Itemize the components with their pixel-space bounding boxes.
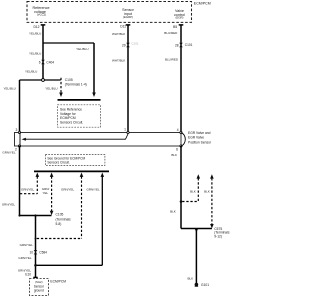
svg-text:EGR Valve: EGR Valve <box>188 136 204 140</box>
svg-text:B5: B5 <box>173 25 177 29</box>
EGR valve and position sensor box <box>15 133 182 147</box>
svg-text:C101: C101 <box>185 43 193 47</box>
svg-text:GRN/YEL: GRN/YEL <box>2 151 16 155</box>
ECM/PCM dashed box (top) <box>27 2 192 23</box>
svg-text:GRN/YEL: GRN/YEL <box>20 243 34 247</box>
svg-text:(EGR): (EGR) <box>176 16 184 20</box>
svg-text:C105: C105 <box>65 78 73 82</box>
svg-text:YEL/BLU: YEL/BLU <box>29 31 41 35</box>
wire YEL/BLU vertical from pin D12 <box>42 25 44 80</box>
node junction line C575 terminals 9-12 <box>181 228 212 230</box>
svg-text:G101: G101 <box>201 283 209 287</box>
svg-text:BLK: BLK <box>170 209 176 213</box>
svg-text:BLU/RED: BLU/RED <box>165 57 179 61</box>
svg-text:C404: C404 <box>46 60 54 64</box>
svg-text:GRN/YEL: GRN/YEL <box>2 202 16 206</box>
svg-text:(EGRP): (EGRP) <box>123 15 133 19</box>
svg-text:YEL/BLU: YEL/BLU <box>25 69 37 73</box>
inline connector 28 C101 on right wire <box>175 43 193 48</box>
ground G101 <box>195 283 199 287</box>
pin label: Reference voltage (VCC2) <box>32 6 49 17</box>
svg-text:E10: E10 <box>25 273 31 277</box>
label GRN/ YEL (two lines) <box>42 187 50 195</box>
potentiometer wiper arrow inside box <box>20 133 128 147</box>
svg-text:C584: C584 <box>39 251 47 255</box>
svg-text:GRN/YEL: GRN/YEL <box>87 188 101 192</box>
svg-text:(Terminals: (Terminals <box>56 217 72 221</box>
ECM/PCM sensor ground dashed box <box>29 279 48 296</box>
svg-text:BLK: BLK <box>188 276 194 280</box>
wire BLK to G101 <box>195 229 197 283</box>
pin terminal at sensor ground <box>33 276 37 278</box>
svg-text:Sensors Circuit.: Sensors Circuit. <box>60 121 83 125</box>
svg-text:5-8): 5-8) <box>56 222 62 226</box>
wire solid branch down x=94 with arrow <box>92 43 96 97</box>
node ground bus line <box>34 170 109 172</box>
svg-text:Position Sensor: Position Sensor <box>188 140 212 144</box>
inline connector C404 on left wire <box>39 60 55 65</box>
svg-text:28: 28 <box>175 43 179 47</box>
junction dot (dashed branch tap) <box>35 238 37 240</box>
svg-text:GRN/YEL: GRN/YEL <box>18 256 32 260</box>
pin label: Valve control (EGR) <box>174 9 185 20</box>
pin label: Sensor input (EGRP) <box>122 8 134 19</box>
node junction at (43,80) <box>42 79 45 82</box>
junction dot <box>34 214 36 216</box>
svg-text:29: 29 <box>122 43 126 47</box>
inline connector 29 on middle wire <box>122 41 139 47</box>
svg-text:BLU/RED: BLU/RED <box>164 31 178 35</box>
pin terminal D12 <box>33 25 45 29</box>
svg-text:BLK: BLK <box>204 189 210 193</box>
svg-text:GRN/YEL: GRN/YEL <box>21 188 35 192</box>
label C105 (Terminals 5-8) <box>56 213 72 227</box>
svg-text:9-12): 9-12) <box>214 234 222 238</box>
EGR solenoid coil arc on right edge <box>181 133 185 146</box>
svg-text:WHT/BLK: WHT/BLK <box>112 32 125 36</box>
wire solid ground branch 4 (arrow up into bus) <box>36 173 104 266</box>
svg-text:YEL/BLU: YEL/BLU <box>45 86 57 90</box>
svg-text:1: 1 <box>124 128 126 132</box>
svg-text:(Terminals 1-4): (Terminals 1-4) <box>65 83 87 87</box>
pin dot 2 <box>18 145 20 147</box>
svg-text:ECM/PCM: ECM/PCM <box>60 116 76 120</box>
wire horizontal right to C105 connector <box>44 79 60 81</box>
svg-text:BLK: BLK <box>171 153 177 157</box>
junction dot on BLK wire <box>180 200 183 203</box>
svg-text:See Reference: See Reference <box>60 107 82 111</box>
svg-text:WHT/BLK: WHT/BLK <box>112 58 125 62</box>
svg-text:GRN/YEL: GRN/YEL <box>61 188 75 192</box>
wire BLU/RED vertical from pin B5 <box>180 25 182 133</box>
svg-text:Sensors Circuit.: Sensors Circuit. <box>47 161 70 165</box>
svg-text:3: 3 <box>16 128 18 132</box>
wire vertical to EGR pin 3 <box>19 80 21 133</box>
pin dot 1 <box>127 131 129 133</box>
node reference bus line <box>58 99 101 101</box>
wire BLK from pin 6 down <box>180 146 182 229</box>
inline connector 10 C584 <box>29 250 47 255</box>
label EGR Valve and EGR Valve Position Sensor <box>188 131 212 144</box>
terminal mark on junction line <box>195 229 198 232</box>
wire horizontal left to x=19.5 <box>20 79 42 81</box>
wire GRN/YEL continuing down to sensor ground <box>35 216 37 278</box>
svg-text:ECM/PCM: ECM/PCM <box>50 279 66 283</box>
See Ground note box <box>45 155 105 166</box>
svg-text:C105: C105 <box>56 213 64 217</box>
svg-text:EGR Valve and: EGR Valve and <box>188 131 211 135</box>
svg-text:D11: D11 <box>120 24 126 28</box>
svg-text:4: 4 <box>177 128 179 132</box>
label C105 (Terminals 1-4) <box>65 78 87 87</box>
label C575 (Terminals 9-12) <box>214 227 230 239</box>
wire WHT/BLK vertical from pin D11 <box>127 25 129 133</box>
svg-text:YEL: YEL <box>42 191 48 195</box>
wire dashed ground branch 2 (arrow up into bus, arrow down into junction) <box>50 173 54 216</box>
svg-text:6: 6 <box>39 60 41 64</box>
pin dot 6 <box>180 145 182 147</box>
See Reference Voltage note box <box>58 105 101 127</box>
wire dashed ground branch 1 (arrow up into bus) <box>20 173 39 194</box>
node junction line C105 terminals 5-8 <box>20 215 52 217</box>
svg-text:ground: ground <box>34 289 44 293</box>
svg-text:ECM/PCM: ECM/PCM <box>194 2 211 6</box>
svg-text:YEL/BLU: YEL/BLU <box>76 47 88 51</box>
svg-text:(VCC2): (VCC2) <box>37 13 46 17</box>
junction dot <box>18 214 20 216</box>
pin terminal B5 <box>173 25 183 29</box>
pin dot 3 <box>18 131 20 133</box>
svg-text:YEL/BLU: YEL/BLU <box>29 51 41 55</box>
svg-text:BLK: BLK <box>190 189 196 193</box>
wire branch horizontal at y=43 <box>43 42 94 44</box>
wire dashed BLK branch 1 (arrow up) <box>182 174 200 201</box>
svg-text:YEL/BLU: YEL/BLU <box>3 86 15 90</box>
svg-text:6: 6 <box>176 148 178 152</box>
pin terminal D11 <box>120 24 130 28</box>
svg-text:C101: C101 <box>131 41 139 45</box>
junction dot (solid branch tap) <box>34 264 37 267</box>
wire dashed BLK branch 2 (arrow up, arrow down) <box>210 174 214 228</box>
svg-text:GRN/YEL: GRN/YEL <box>18 268 32 272</box>
wire GRN/YEL from pin 2 down <box>19 146 21 216</box>
wire dashed ground branch 3 (arrow up into bus) <box>37 173 84 239</box>
pin dot 4 <box>180 131 182 133</box>
wire dashed to C105 terminals 1-4 with arrow <box>59 78 63 97</box>
svg-text:10: 10 <box>29 251 33 255</box>
svg-text:D12: D12 <box>33 25 39 29</box>
svg-text:Voltage for: Voltage for <box>60 112 77 116</box>
